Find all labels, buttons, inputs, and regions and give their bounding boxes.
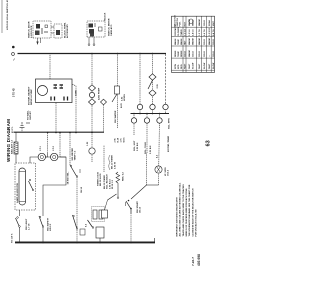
paper edge mark [1, 0, 3, 33]
dashed box fluorescent fixture [15, 163, 36, 210]
relay box RB2 [102, 210, 108, 218]
solenoid K3 [163, 104, 168, 109]
terminal dot [12, 46, 15, 49]
rung pump chain [91, 54, 93, 163]
rung agitate solenoid [139, 54, 141, 114]
rung timer motor [159, 114, 160, 186]
connector D3 diamond [149, 74, 156, 80]
svg-text:2.05 B-14: 2.05 B-14 [108, 179, 111, 189]
svg-text:ACCESSORY: ACCESSORY [66, 24, 69, 38]
svg-text:WIRE IS OF CHECKED WIRE F: WIRE IS OF CHECKED WIRE FOR EACH CONN. [185, 188, 188, 237]
wire lamp bottom corner [43, 157, 66, 216]
wire S7 to rail3 [76, 177, 78, 243]
wire bus3 end hook [154, 238, 156, 243]
svg-text:COLD: COLD [204, 20, 206, 26]
svg-text:SLOW: SLOW [193, 63, 195, 69]
svg-text:SOL. SPIN: SOL. SPIN [169, 118, 171, 129]
wire to rail3 s6 [42, 232, 44, 243]
svg-text:COLD: COLD [204, 39, 206, 45]
svg-text:SOL, HOT: SOL, HOT [134, 140, 136, 151]
svg-text:SOAK: SOAK [208, 19, 211, 26]
capacitor C2 [60, 85, 64, 88]
wire link rung147 [146, 153, 148, 185]
svg-text:FAST: FAST [188, 63, 191, 69]
svg-text:WARM: WARM [188, 38, 191, 45]
svg-text:LITHO IN U.S.A. PART NO. 4036: LITHO IN U.S.A. PART NO. 403698 [6, 0, 9, 30]
svg-text:WIRING DIAGRAM: WIRING DIAGRAM [6, 119, 11, 162]
svg-text:A202 PUMP: A202 PUMP [98, 87, 101, 100]
svg-text:TEMP.: TEMP. [178, 38, 180, 45]
svg-text:L-7 18: L-7 18 [29, 223, 31, 230]
svg-text:LAMP, FLUOR 20W: LAMP, FLUOR 20W [16, 182, 19, 203]
svg-text:RINSE: RINSE [181, 50, 183, 57]
switch S1 body [115, 86, 120, 94]
svg-text:SW. LIGHT: SW. LIGHT [26, 218, 28, 230]
wire rung bleach [103, 145, 105, 172]
resistor R2 [93, 210, 97, 219]
junction dot rail1 pump [91, 53, 93, 55]
rung cold solenoid [146, 114, 148, 154]
wire ballast rung [15, 133, 17, 143]
components inside F2 [89, 23, 103, 37]
svg-text:60 CY.: 60 CY. [12, 126, 14, 133]
rung water level switch [117, 54, 119, 129]
wire L1 rail (bus1) [18, 53, 167, 55]
svg-text:SLOW: SLOW [213, 63, 215, 69]
svg-text:SOL, COLD: SOL, COLD [145, 142, 147, 154]
svg-text:FAST: FAST [198, 63, 201, 69]
junction dot rail1 wls [117, 53, 119, 55]
rung fill solenoid [133, 114, 135, 136]
resistor R3 [99, 210, 103, 219]
lamp LT1 [38, 153, 45, 160]
svg-text:7-26-7: 7-26-7 [191, 257, 195, 266]
note paragraph [175, 182, 197, 236]
svg-text:COLD: COLD [213, 51, 215, 57]
svg-text:TEMP 7.3: TEMP 7.3 [75, 150, 77, 160]
svg-text:1B-16: 1B-16 [81, 186, 83, 193]
svg-text:2.05 B-8: 2.05 B-8 [150, 145, 152, 154]
svg-text:COLD: COLD [193, 51, 195, 57]
connector D2 diamond [89, 99, 96, 105]
wire lamp tie2 [59, 133, 61, 158]
lamp B1 circle [155, 166, 162, 173]
svg-text:SPIN: SPIN [175, 64, 177, 69]
svg-text:BU-16 TIMER: BU-16 TIMER [104, 175, 106, 189]
svg-text:W-16 1.3: W-16 1.3 [112, 179, 114, 189]
svg-text:POS.: POS. [180, 21, 182, 26]
svg-text:HOT: HOT [184, 40, 186, 45]
lead with arrow A1 [37, 38, 39, 45]
svg-text:FAST: FAST [208, 63, 211, 69]
solenoid K1 [137, 104, 142, 109]
protector P2 [51, 97, 55, 101]
connector D4 diamond [149, 90, 156, 96]
lamp LT2 [51, 153, 58, 160]
svg-text:3.05 W: 3.05 W [115, 161, 117, 169]
switch S5 [19, 227, 21, 231]
svg-text:SW. SAFETY: SW. SAFETY [47, 217, 50, 231]
small box on rung77 [80, 229, 85, 235]
terminal L1 [12, 53, 15, 56]
start switch S3 cluster [126, 200, 132, 214]
svg-text:SW. START: SW. START [136, 201, 139, 213]
svg-text:OUTLET: OUTLET [30, 111, 32, 120]
svg-text:3 TO 4D: 3 TO 4D [13, 88, 16, 97]
svg-text:SW. WATER: SW. WATER [71, 148, 74, 161]
svg-text:1B SW. SEL.: 1B SW. SEL. [67, 171, 69, 184]
svg-text:DRIVE & PUMP: DRIVE & PUMP [31, 89, 33, 105]
svg-text:WARM: WARM [198, 19, 201, 26]
connector D5 diamond [101, 99, 107, 105]
solenoid K4 [131, 118, 136, 123]
table, cycle chart [172, 16, 215, 72]
svg-text:TEMP.: TEMP. [178, 50, 180, 57]
rung timer switch [152, 54, 154, 114]
wire lamp to box [30, 157, 36, 163]
svg-text:WASH: WASH [192, 19, 195, 26]
solenoid K2 [150, 104, 155, 109]
svg-text:LT. SPIN: LT. SPIN [165, 167, 167, 176]
wire lamp tie1 [47, 133, 49, 154]
svg-text:MOTOR, TIMER: MOTOR, TIMER [168, 135, 170, 152]
wire M1 lead3 with bend [72, 84, 76, 133]
svg-text:403 698: 403 698 [197, 254, 201, 266]
wire ground rail (bus3) [15, 241, 155, 243]
svg-text:W-16: W-16 [124, 137, 126, 143]
svg-text:COLD: COLD [199, 51, 201, 57]
motor M1 circle [38, 86, 48, 96]
relay box RB1 [96, 227, 104, 238]
switch S4 in box [29, 181, 34, 190]
switch S1 blade [112, 94, 117, 102]
switch S7 water temp [70, 165, 77, 177]
svg-text:LID 2.3: LID 2.3 [50, 223, 52, 231]
svg-text:1-2 3-4: 1-2 3-4 [183, 29, 186, 36]
svg-text:TRACE AND CHECK EACH WIRE: TRACE AND CHECK EACH WIRE TO THE TRACING [182, 184, 185, 237]
sub-rail junction dots [133, 113, 135, 115]
svg-text:WARM: WARM [188, 50, 191, 57]
svg-text:CLOSED: CLOSED [178, 27, 180, 36]
svg-text:COLD: COLD [184, 51, 186, 57]
brace [109, 155, 110, 170]
wire R1 to box [15, 154, 17, 163]
svg-text:TIMER 2.05 B: TIMER 2.05 B [98, 172, 100, 186]
motor aux circle [89, 92, 94, 97]
switch S2 blade [148, 80, 153, 89]
svg-text:3-4 5-6: 3-4 5-6 [192, 29, 195, 36]
svg-text:1B-13: 1B-13 [140, 206, 142, 213]
svg-text:WARM: WARM [188, 19, 191, 26]
svg-text:BK-18 L4.05: BK-18 L4.05 [99, 173, 102, 186]
heater dashed outline [92, 207, 105, 222]
svg-text:CONTACTS: CONTACTS [174, 24, 177, 36]
protector P3 [64, 97, 68, 101]
svg-text:& LID LOCK: & LID LOCK [31, 25, 33, 38]
rung spin solenoid dashed [165, 54, 167, 114]
dashed box fixture F1 (top accessory) [33, 21, 51, 38]
svg-text:BK-12 TIMER: BK-12 TIMER [112, 155, 114, 169]
svg-text:THE SCHEMATIC DIAGRAM. SEE: THE SCHEMATIC DIAGRAM. SEE THE CHART FOR [188, 184, 191, 236]
label block water level wires [115, 137, 126, 143]
switch S8 on rung77 [73, 215, 78, 229]
wire diagonal to start [131, 185, 147, 199]
svg-text:IMPORTANT SWITCHES SHOWN WIT: IMPORTANT SWITCHES SHOWN WITH [175, 197, 178, 237]
wire zigzag rung [117, 183, 119, 198]
svg-text:FOR ON EACH CYCLE.: FOR ON EACH CYCLE. MX [194, 209, 197, 237]
svg-text:REG.: REG. [181, 63, 183, 69]
dashed box F2 (second accessory) [87, 21, 105, 37]
svg-text:1-2 5-6: 1-2 5-6 [189, 29, 191, 36]
svg-text:WARM: WARM [208, 38, 211, 45]
svg-text:63: 63 [206, 140, 212, 146]
component inside F1b [56, 30, 60, 35]
coil L5 circle [89, 148, 95, 154]
wire neutral rail (bus2) [14, 131, 105, 133]
table header texts [174, 15, 186, 69]
link F1-F1b [51, 32, 54, 34]
svg-text:BLOCK, TERM.: BLOCK, TERM. [65, 22, 67, 38]
solenoid K5 [144, 118, 149, 123]
svg-text:TO 110 V.: TO 110 V. [12, 233, 14, 243]
table body texts [180, 19, 215, 69]
lead F2 a [88, 37, 90, 44]
svg-text:18.3.5: 18.3.5 [168, 169, 170, 176]
motor box M1 [36, 79, 73, 103]
tick near rail L1 [13, 59, 15, 61]
wire M1 lead2 [55, 103, 57, 133]
wire vertical link [147, 184, 159, 186]
power cord plug P1 [20, 122, 31, 133]
svg-text:RINSE: RINSE [175, 50, 177, 57]
svg-text:5A8B: 5A8B [75, 90, 78, 96]
rung water temp [69, 133, 71, 166]
wire solenoid sub-rail [131, 113, 170, 115]
svg-text:2.05 B-6: 2.05 B-6 [137, 142, 139, 151]
capacitor C1 [54, 85, 58, 88]
connector D1 diamond [89, 85, 96, 91]
switch S6 [39, 216, 43, 227]
svg-text:ALL WIRE CODE COLORS AS V: ALL WIRE CODE COLORS AS VIEWED COLORS AL… [179, 182, 182, 236]
resistor R1 ballast [14, 142, 18, 154]
svg-text:3-4 7-8: 3-4 7-8 [212, 29, 215, 36]
svg-text:1-2 7-8: 1-2 7-8 [199, 29, 201, 36]
lead A2 [40, 38, 42, 43]
svg-text:RES. 6.3: RES. 6.3 [123, 171, 125, 181]
svg-text:WASH: WASH [174, 38, 177, 45]
svg-text:FAST: FAST [183, 63, 186, 69]
svg-text:WASH: WASH [180, 38, 183, 45]
svg-text:SOL. BLEACH: SOL. BLEACH [106, 174, 109, 189]
svg-text:HOT: HOT [184, 21, 186, 26]
svg-text:SPD.: SPD. [178, 64, 180, 69]
lamp wire vertical [36, 156, 66, 158]
dashed box F1b [54, 24, 62, 38]
wire RB1 to rail3 [99, 238, 101, 243]
switch S10 blade [108, 194, 117, 200]
table symbol circle [189, 19, 193, 23]
svg-text:1-2 9-10: 1-2 9-10 [209, 27, 211, 36]
svg-text:BLOCK: BLOCK [105, 12, 107, 20]
components inside F1 [35, 24, 48, 35]
fluorescent lamp LT3 [19, 168, 26, 205]
svg-text:KNIT: KNIT [213, 20, 215, 26]
svg-text:LEVEL: LEVEL [124, 93, 126, 101]
solenoid K6 [157, 118, 162, 123]
svg-text:WARM: WARM [192, 38, 195, 45]
wire box to switch S5 [19, 210, 21, 216]
svg-text:CLOSED IN EACH OF THE SEL: CLOSED IN EACH OF THE SELECTOR SWITCH [191, 188, 194, 236]
wire rung start [130, 214, 132, 243]
svg-text:WARM: WARM [198, 38, 201, 45]
svg-text:TIMER: TIMER [181, 29, 183, 36]
svg-text:SLOW: SLOW [204, 63, 206, 69]
svg-text:5-6 7-8: 5-6 7-8 [204, 29, 206, 36]
svg-text:COLD: COLD [204, 51, 206, 57]
lead F2 b [93, 37, 95, 44]
junction dot rail2 pump [91, 132, 93, 134]
resistor R4 zigzag [116, 172, 120, 183]
junction dots rail2 [55, 132, 57, 134]
wire M1 top lead [49, 54, 51, 80]
svg-text:COLD: COLD [213, 39, 215, 45]
svg-text:SW. WATER: SW. WATER [114, 110, 117, 123]
switch S9 blade [88, 220, 94, 228]
wire bus2 end stub [103, 104, 105, 133]
wire to rail3 [19, 231, 21, 243]
svg-text:CASE ACC.: CASE ACC. [110, 24, 113, 36]
svg-text:B-20: B-20 [121, 102, 123, 108]
